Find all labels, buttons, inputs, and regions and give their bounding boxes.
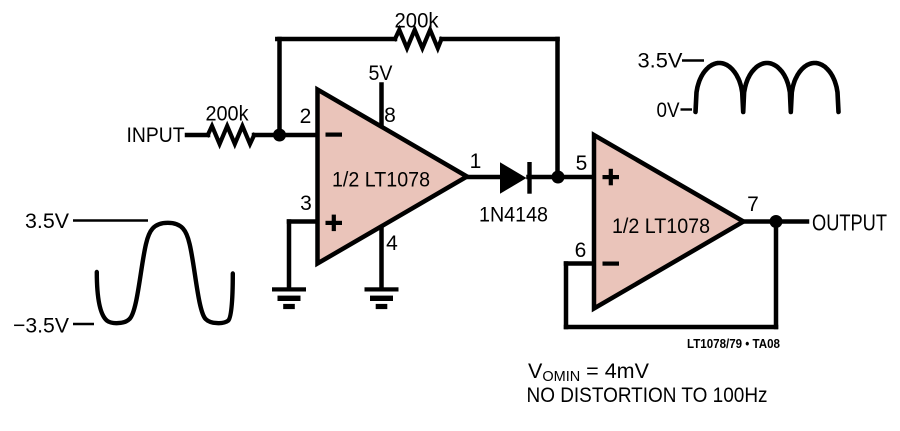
- wire feedback left vertical: [277, 39, 282, 135]
- wire R1 to op-amp U1 pin 2: [254, 133, 317, 138]
- wire U2 output pin 7: [744, 219, 808, 224]
- svg-text:3.5V: 3.5V: [25, 209, 70, 233]
- wire diode cathode to U2 pin 5: [529, 175, 595, 180]
- svg-text:VOMIN = 4mV: VOMIN = 4mV: [528, 359, 650, 385]
- wire U1 output pin 1 to diode: [467, 175, 501, 180]
- op-amp U2 1/2 LT1078: [594, 135, 744, 309]
- svg-text:LT1078/79 • TA08: LT1078/79 • TA08: [687, 337, 780, 351]
- svg-text:6: 6: [575, 239, 587, 262]
- svg-text:8: 8: [384, 104, 396, 127]
- svg-text:3.5V: 3.5V: [638, 49, 684, 73]
- input waveform -3.5V level line: [73, 323, 94, 325]
- svg-text:200k: 200k: [395, 9, 439, 33]
- svg-text:5: 5: [576, 152, 588, 175]
- svg-text:7: 7: [747, 193, 759, 216]
- wire input lead to resistor R1: [187, 133, 208, 138]
- node A junction dot at R1 / feedback: [273, 129, 286, 142]
- svg-text:NO DISTORTION TO 100Hz: NO DISTORTION TO 100Hz: [527, 383, 768, 407]
- wire U1 pin 3 vertical to ground: [287, 222, 292, 288]
- node B junction dot at diode cathode: [552, 171, 565, 184]
- wire U2 pin 6 horizontal: [566, 261, 594, 266]
- op-amp U1 1/2 LT1078: [318, 90, 468, 264]
- wire U2 feedback bottom horizontal: [566, 325, 776, 330]
- svg-text:1N4148: 1N4148: [479, 203, 548, 227]
- input waveform 3.5V level line: [73, 219, 148, 221]
- output rectified waveform: [696, 63, 839, 112]
- ground symbol at U1 pin 3: [272, 287, 306, 309]
- resistor R1 200k zigzag: [208, 126, 254, 144]
- svg-text:INPUT: INPUT: [127, 123, 185, 147]
- wire U2 feedback right vertical up to output node: [774, 222, 779, 328]
- op-amp U2 plus input symbol: [603, 175, 620, 179]
- svg-text:5V: 5V: [369, 61, 394, 85]
- wire top left horizontal to resistor R2: [277, 37, 395, 42]
- svg-text:−3.5V: −3.5V: [13, 314, 70, 338]
- svg-text:200k: 200k: [206, 102, 249, 126]
- svg-text:3: 3: [300, 192, 312, 215]
- svg-text:1: 1: [470, 150, 482, 173]
- op-amp U1 minus input symbol: [326, 133, 343, 137]
- wire right vertical down to diode node: [555, 39, 560, 177]
- wire top right horizontal: [442, 37, 558, 42]
- op-amp U2 minus input symbol: [603, 262, 620, 266]
- input sine waveform: [97, 223, 233, 323]
- svg-text:2: 2: [300, 105, 312, 128]
- svg-text:1/2 LT1078: 1/2 LT1078: [332, 168, 430, 192]
- resistor R2 200k zigzag: [395, 30, 442, 48]
- wire U1 pin 3 horizontal: [289, 219, 317, 224]
- svg-text:4: 4: [386, 232, 398, 255]
- wire 5V supply stub to pin 8: [379, 85, 384, 127]
- op-amp U1 plus input symbol: [326, 221, 343, 225]
- ground symbol at U1 pin 4: [365, 287, 399, 309]
- output waveform 3.5V level dash: [682, 59, 704, 61]
- node C junction dot at output: [770, 215, 783, 228]
- svg-text:OUTPUT: OUTPUT: [812, 210, 887, 236]
- wire U1 pin 4 vertical to ground: [379, 226, 384, 288]
- output waveform 0V level dash: [681, 108, 693, 110]
- svg-text:1/2 LT1078: 1/2 LT1078: [612, 214, 710, 238]
- diode D1 1N4148: [500, 162, 527, 193]
- wire U2 feedback left vertical: [564, 264, 569, 328]
- svg-text:0V: 0V: [657, 98, 681, 122]
